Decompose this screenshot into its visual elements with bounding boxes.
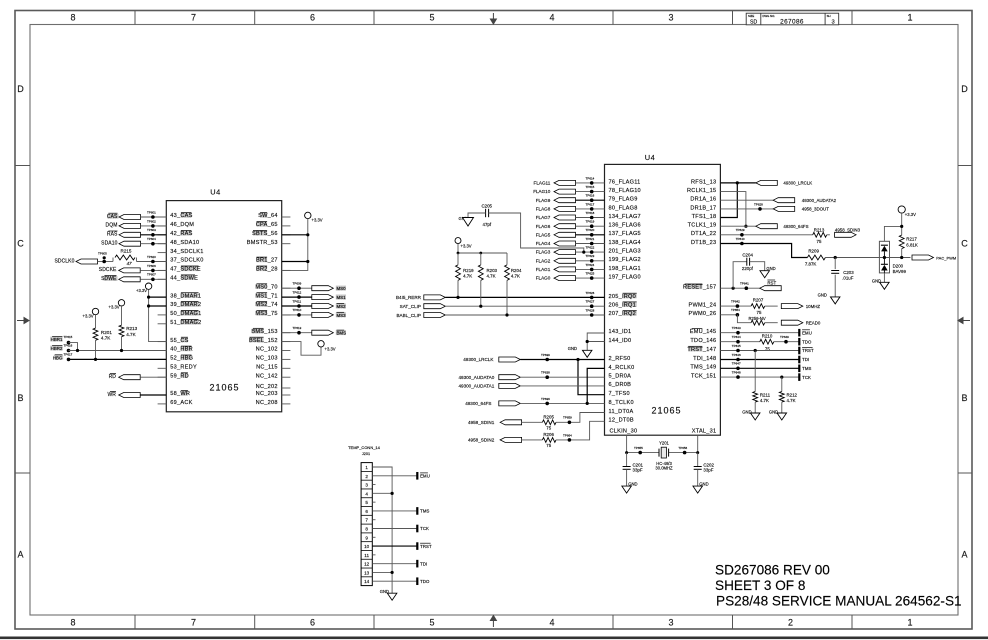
svg-text:BSEL_152: BSEL_152 [249, 338, 278, 344]
node RAS input flag [108, 230, 117, 232]
svg-text:13: 13 [364, 570, 370, 575]
node junction R217 top [900, 225, 903, 228]
svg-text:TP614: TP614 [586, 176, 595, 180]
test point TP620 [590, 233, 594, 237]
node MS3 output flag [282, 314, 313, 316]
svg-text:DQM: DQM [106, 223, 118, 229]
wire D200 top to +3.3V [884, 226, 901, 241]
svg-text:4958_SDIN1: 4958_SDIN1 [468, 420, 495, 425]
svg-text:FLAG2: FLAG2 [536, 258, 551, 263]
power +3.3V pull for DMAR [145, 283, 151, 289]
svg-text:GND: GND [568, 346, 577, 351]
node junction C203 [834, 256, 837, 259]
svg-text:4: 4 [549, 618, 554, 628]
node MS2 output flag [282, 305, 313, 307]
svg-text:RFS1_13: RFS1_13 [691, 179, 716, 185]
wire RAS [141, 234, 167, 236]
svg-text:EMU: EMU [802, 330, 812, 335]
svg-text:44_SDWE: 44_SDWE [170, 276, 198, 282]
svg-text:RCLK1_15: RCLK1_15 [687, 188, 716, 194]
node junction TRST pulldown [754, 349, 757, 352]
test point TP626 [590, 296, 594, 300]
svg-text:4.7K: 4.7K [126, 332, 136, 337]
svg-text:30.0MHZ: 30.0MHZ [655, 466, 673, 471]
svg-text:4.7K: 4.7K [463, 274, 472, 279]
wire FLAG2 [576, 260, 605, 262]
svg-text:7_TFS0: 7_TFS0 [609, 391, 630, 397]
node 49300_AUDATA2 flag [773, 198, 795, 203]
node BMS output flag [282, 332, 313, 334]
node junction HBG R201 [94, 358, 97, 361]
wire FLAG1 [576, 268, 605, 270]
wire J201 pin8 TCK [372, 528, 417, 530]
wire SDIN2 to R206 [522, 439, 543, 441]
wire IRQ2 [445, 314, 604, 316]
wire J201 pin1 to ground rail [372, 467, 392, 593]
test point TP655 [638, 451, 642, 455]
svg-text:220pf: 220pf [742, 266, 754, 271]
wire PWM0 jog [720, 314, 737, 316]
svg-text:R206: R206 [543, 432, 554, 437]
svg-text:R211: R211 [760, 392, 771, 397]
test point TP640 [740, 242, 744, 246]
svg-text:5_DR0A: 5_DR0A [609, 374, 632, 380]
svg-text:47pf: 47pf [483, 222, 492, 227]
test point TP654 [568, 438, 572, 442]
test point TP627 [590, 304, 594, 308]
test point TP616 [590, 198, 594, 202]
wire J201 pin2 EMU [372, 475, 417, 477]
wire TMS [720, 367, 799, 369]
node junction BR1 [306, 260, 309, 263]
ground D200 [883, 273, 885, 282]
svg-text:6: 6 [310, 618, 315, 628]
svg-text:TP649: TP649 [780, 335, 789, 339]
power +3.3V PAC_PWM [898, 206, 905, 213]
svg-text:12: 12 [364, 562, 370, 567]
wire +3.3V to DMAR1 DMAR2 CS [149, 289, 167, 341]
svg-text:207_IRQ2: 207_IRQ2 [609, 311, 637, 317]
node terminal TCK J201 [416, 525, 418, 533]
svg-text:D: D [17, 84, 24, 94]
test point TP645 [736, 349, 740, 353]
svg-text:47_SDCKE: 47_SDCKE [170, 267, 201, 273]
svg-text:TP640: TP640 [736, 237, 745, 241]
svg-text:75: 75 [817, 239, 822, 244]
svg-text:197_FLAG0: 197_FLAG0 [609, 275, 641, 281]
resistor R210 75 [760, 339, 774, 344]
node terminal TDI [798, 356, 800, 364]
op-amp U4 right block 21065 [605, 164, 721, 435]
svg-text:TP605: TP605 [98, 252, 107, 256]
node terminal EMU J201 [416, 472, 418, 480]
svg-text:TDI_148: TDI_148 [693, 356, 716, 362]
svg-text:TP613: TP613 [293, 326, 302, 330]
svg-text:FLAG0: FLAG0 [536, 276, 551, 281]
svg-text:33pF: 33pF [703, 468, 713, 473]
test point TP622 [590, 250, 594, 254]
resistor R213 4.7K [121, 306, 123, 325]
svg-text:MS2: MS2 [337, 304, 347, 309]
svg-text:PS28/48 SERVICE MANUAL 264562-: PS28/48 SERVICE MANUAL 264562-S1 [716, 594, 962, 609]
svg-text:BR2_28: BR2_28 [256, 267, 278, 273]
svg-text:TP616: TP616 [586, 194, 595, 198]
wire SDA10 [141, 243, 167, 245]
svg-text:144_ID0: 144_ID0 [609, 338, 632, 344]
node RST flag [760, 286, 782, 291]
svg-text:75: 75 [546, 426, 551, 431]
svg-text:TP607: TP607 [147, 273, 156, 277]
svg-text:PWM0_26: PWM0_26 [689, 311, 717, 317]
svg-text:4.7K: 4.7K [760, 398, 769, 403]
test point TP647 [736, 367, 740, 371]
svg-text:R209: R209 [808, 249, 819, 254]
svg-text:TP643: TP643 [732, 326, 741, 330]
wire TCK [720, 376, 799, 378]
svg-text:RD: RD [109, 374, 117, 380]
svg-text:SW_64: SW_64 [258, 213, 278, 219]
svg-text:R207: R207 [753, 298, 764, 303]
wire IRQ0 [445, 296, 604, 298]
svg-text:6_DR0B: 6_DR0B [609, 382, 632, 388]
node 10MHZ flag [781, 304, 803, 309]
node terminal TRST [798, 347, 800, 355]
resistor R212 4.7K [781, 377, 783, 391]
node WR input flag [110, 390, 116, 392]
resistor R206 75 [542, 438, 556, 443]
svg-text:GND: GND [766, 266, 775, 271]
svg-text:TP654: TP654 [731, 308, 740, 312]
node junction TCLK1 [744, 225, 747, 228]
wire WR [140, 394, 166, 396]
svg-text:R213: R213 [126, 326, 137, 331]
svg-text:5: 5 [429, 13, 434, 23]
svg-text:BMS: BMS [337, 331, 347, 336]
svg-text:TP625: TP625 [586, 272, 595, 276]
wire XTAL stub [697, 435, 699, 452]
svg-text:3: 3 [365, 483, 368, 488]
test point TP641 [745, 286, 749, 290]
svg-text:4: 4 [549, 13, 554, 23]
svg-text:CLKIN_30: CLKIN_30 [610, 428, 638, 434]
svg-text:TP636: TP636 [541, 397, 550, 401]
svg-text:DR1B_17: DR1B_17 [690, 205, 716, 211]
svg-text:7: 7 [191, 618, 196, 628]
svg-text:14: 14 [364, 579, 370, 584]
wire TDI [720, 359, 799, 361]
power +3.3V pull SBTS/BR [305, 212, 311, 218]
U4-right JTAG pin names [692, 328, 703, 330]
svg-text:51_DMAG2: 51_DMAG2 [170, 320, 201, 326]
node terminal TRST J201 [416, 542, 418, 550]
svg-text:D200: D200 [893, 264, 904, 269]
svg-text:HBR1: HBR1 [51, 337, 63, 342]
svg-text:+3.3V: +3.3V [461, 244, 472, 249]
svg-text:TP628: TP628 [586, 308, 595, 312]
svg-text:33pF: 33pF [633, 468, 643, 473]
ground C204 [750, 262, 765, 271]
svg-text:+3.3V: +3.3V [83, 313, 94, 318]
svg-text:46_DQM: 46_DQM [170, 222, 194, 228]
U4-left pin names right column [260, 213, 267, 218]
wire +3.3V to R217 [901, 213, 903, 235]
svg-text:TP648: TP648 [732, 371, 741, 375]
svg-text:MS0: MS0 [337, 286, 347, 291]
test point TP646 [736, 358, 740, 362]
svg-text:4958_SDIN3: 4958_SDIN3 [835, 227, 861, 232]
node junction TCK pulldown [780, 376, 783, 379]
svg-text:R204: R204 [511, 268, 522, 273]
svg-text:FLAG10: FLAG10 [533, 189, 551, 194]
svg-text:1: 1 [907, 13, 912, 23]
svg-text:TCLK1_19: TCLK1_19 [688, 223, 717, 229]
svg-text:TFS1_18: TFS1_18 [692, 214, 717, 220]
test point TP604 [151, 242, 155, 246]
svg-text:BMSTR_53: BMSTR_53 [247, 240, 278, 246]
svg-text:TRST_147: TRST_147 [687, 347, 716, 353]
wire CAS [141, 216, 167, 218]
svg-text:PAC_PWM: PAC_PWM [936, 255, 956, 260]
test point TP617 [590, 207, 594, 211]
svg-text:TP620: TP620 [147, 255, 156, 259]
svg-text:8: 8 [70, 13, 75, 23]
svg-text:206_IRQ1: 206_IRQ1 [609, 303, 637, 309]
wire TRST [720, 350, 799, 352]
test point TP624 [590, 268, 594, 272]
svg-text:198_FLAG1: 198_FLAG1 [609, 266, 641, 272]
wire AUDATA1 to DR0B [520, 385, 604, 387]
svg-text:C205: C205 [482, 203, 493, 208]
test point TP628 [590, 313, 594, 317]
wire SBTS [282, 234, 308, 236]
wire EMU [720, 332, 799, 334]
wire SDIN1 to DT0A [556, 413, 605, 423]
svg-text:TP615: TP615 [64, 335, 73, 339]
svg-text:GND: GND [818, 293, 827, 298]
resistor R205 75 [542, 420, 556, 425]
svg-text:49300_64FS: 49300_64FS [783, 224, 808, 229]
svg-text:TP644: TP644 [732, 335, 741, 339]
svg-text:NC_103: NC_103 [256, 356, 278, 362]
svg-text:201_FLAG3: 201_FLAG3 [609, 249, 641, 255]
wire crystal net [627, 452, 659, 454]
node junction RESET C204 [732, 287, 735, 290]
test point TP602 [151, 224, 155, 228]
svg-text:69_ACK: 69_ACK [170, 400, 192, 406]
svg-text:SDA10: SDA10 [101, 241, 117, 247]
svg-text:FLAG1: FLAG1 [536, 267, 551, 272]
svg-text:+3.3V: +3.3V [325, 347, 336, 352]
svg-text:+3.3V: +3.3V [136, 288, 147, 293]
svg-text:BR1_27: BR1_27 [256, 258, 278, 264]
svg-text:FLAG8: FLAG8 [536, 207, 551, 212]
test point TP614 [590, 181, 594, 185]
svg-text:75: 75 [546, 443, 551, 448]
test point TP620 [151, 260, 155, 264]
svg-text:3: 3 [668, 618, 673, 628]
svg-text:TCK_151: TCK_151 [691, 374, 716, 380]
svg-text:6: 6 [310, 13, 315, 23]
test point TP601 [151, 215, 155, 219]
wire HBR1 jog [69, 343, 78, 351]
svg-text:3: 3 [668, 13, 673, 23]
svg-text:SDCKE: SDCKE [99, 267, 117, 273]
diode D200 BAV99 [879, 241, 889, 273]
node HBG label [54, 355, 63, 360]
svg-text:R219: R219 [463, 268, 474, 273]
wire J201 pin4 [372, 492, 392, 494]
node junction LRCLK TFS0 [576, 358, 579, 361]
wire RFS1 to 49300_LRCLK flag [720, 182, 755, 184]
wire FLAG8 [576, 208, 605, 210]
svg-text:U4: U4 [210, 188, 220, 197]
capacitor C204 220pf [733, 262, 747, 289]
svg-text:TCK: TCK [420, 526, 429, 531]
svg-text:143_ID1: 143_ID1 [609, 329, 632, 335]
wire DMAR1 [149, 296, 167, 298]
svg-text:4.7K: 4.7K [511, 274, 520, 279]
wire SDIN2 to DT0B [556, 421, 605, 440]
op-amp U4 left block 21065 [166, 201, 281, 412]
svg-text:138_FLAG4: 138_FLAG4 [609, 240, 641, 246]
svg-text:50_DMAG1: 50_DMAG1 [170, 311, 201, 317]
wire R209 to PAC_PWM net [825, 257, 910, 259]
svg-text:TP624: TP624 [586, 263, 595, 267]
wire TDO [720, 341, 760, 343]
svg-text:8: 8 [70, 618, 75, 628]
test point TP629 [740, 233, 744, 237]
svg-text:1: 1 [907, 618, 912, 628]
svg-text:R201: R201 [101, 330, 112, 335]
svg-text:TP612: TP612 [293, 290, 302, 294]
svg-text:9: 9 [365, 535, 368, 540]
svg-text:TMS_149: TMS_149 [690, 365, 716, 371]
svg-text:FLAG7: FLAG7 [536, 215, 551, 220]
svg-text:A: A [961, 550, 967, 560]
U4-right RESET pin name [685, 284, 703, 289]
resistor R215 47 [112, 258, 114, 262]
resistor R203 4.7K [480, 253, 482, 265]
wire AUDATA0 to DR0A [520, 376, 604, 378]
test point TP643 [736, 331, 740, 335]
svg-text:C: C [961, 239, 968, 249]
svg-text:6: 6 [365, 509, 368, 514]
wire LRCLK to RFS0 [520, 359, 604, 361]
test point TP606 [151, 269, 155, 273]
node junction RFS1 TFS1 [736, 181, 739, 184]
test point TP605 [102, 260, 106, 264]
svg-text:TP656: TP656 [678, 446, 687, 450]
svg-text:6.81K: 6.81K [906, 242, 918, 247]
svg-text:TDI: TDI [802, 357, 809, 362]
svg-text:49300_LRCLK: 49300_LRCLK [463, 357, 494, 362]
node terminal TMS J201 [416, 507, 418, 515]
svg-text:4.7K: 4.7K [487, 274, 496, 279]
power +3.3V pull R201 [92, 308, 98, 314]
wire R259 to READ0 flag [765, 322, 778, 324]
svg-text:49300_AUDATA1: 49300_AUDATA1 [458, 384, 494, 389]
test point TP649 [784, 340, 788, 344]
svg-text:R259-NV: R259-NV [749, 316, 766, 321]
node junction SBTS [306, 233, 309, 236]
svg-text:GND: GND [769, 410, 778, 415]
svg-text:49300_AUDATA0: 49300_AUDATA0 [458, 375, 494, 380]
svg-text:TP619: TP619 [586, 220, 595, 224]
node HBR1 label [50, 337, 62, 342]
svg-text:10: 10 [364, 544, 370, 549]
svg-text:TRST: TRST [420, 544, 432, 549]
svg-text:READ0: READ0 [806, 321, 821, 326]
svg-text:FLAG9: FLAG9 [536, 198, 551, 203]
wire FLAG4 [576, 243, 605, 245]
svg-text:TP617: TP617 [64, 352, 73, 356]
svg-text:U4: U4 [645, 153, 655, 162]
wire IRQ1 [445, 305, 604, 307]
svg-text:55_CS: 55_CS [170, 338, 188, 344]
capacitor C202 33pF [697, 453, 699, 467]
svg-text:BAV99: BAV99 [893, 269, 907, 274]
svg-text:2_RFS0: 2_RFS0 [609, 356, 631, 362]
svg-text:NC_202: NC_202 [256, 384, 278, 390]
wire J201 pin10 TRST [372, 545, 417, 547]
node terminal TDI J201 [416, 560, 418, 568]
svg-text:HBG: HBG [53, 355, 63, 360]
node MS1 output flag [282, 296, 313, 298]
wire SDWE [140, 278, 166, 280]
capacitor C201 33pF [626, 453, 628, 467]
svg-text:MS1: MS1 [337, 295, 347, 300]
wire TCLK1 to 49300_64FS flag [720, 225, 755, 227]
test point TP644 [736, 340, 740, 344]
test point HBG [67, 358, 71, 362]
test point TP607 [151, 278, 155, 282]
svg-text:R205: R205 [543, 414, 554, 419]
svg-text:NC_142: NC_142 [256, 373, 278, 379]
svg-text:SIZE: SIZE [748, 14, 754, 18]
svg-text:TP645: TP645 [732, 344, 741, 348]
svg-text:BMS_153: BMS_153 [251, 329, 277, 335]
svg-text:B: B [17, 393, 23, 403]
resistor R213 75 [813, 232, 827, 237]
wire J201 pin14 TDO [372, 580, 417, 582]
wire +3.3V to SBTS BR1 BR2 [282, 219, 308, 271]
svg-text:PWM1_24: PWM1_24 [689, 303, 717, 309]
wire FLAG11 [576, 182, 605, 184]
wire ID1 ID0 to ground [587, 333, 604, 350]
svg-text:1: 1 [365, 465, 368, 470]
wire SDCLK0 right segment [137, 261, 167, 263]
svg-text:Y201: Y201 [659, 441, 669, 446]
wire FLAG6 [576, 225, 605, 227]
wire CLKIN stub [626, 435, 628, 452]
svg-text:40_HBR: 40_HBR [170, 347, 193, 353]
svg-text:TP655: TP655 [634, 446, 643, 450]
node 49300_LRCLK flag right [756, 180, 778, 185]
node HBR2 label [50, 346, 62, 351]
svg-text:59_RD: 59_RD [170, 373, 189, 379]
svg-text:136_FLAG6: 136_FLAG6 [609, 223, 641, 229]
svg-text:MS1_71: MS1_71 [255, 293, 277, 299]
node junction FLAG3 C205 [582, 251, 585, 254]
svg-text:TP618: TP618 [586, 211, 595, 215]
svg-text:TMS: TMS [802, 366, 811, 371]
wire +3.3V bus to pullups [458, 244, 507, 253]
test point TP642 [736, 304, 740, 308]
svg-text:TRST: TRST [802, 348, 814, 353]
svg-text:10MHZ: 10MHZ [806, 304, 821, 309]
svg-text:SDWE: SDWE [101, 276, 117, 282]
svg-text:TP629: TP629 [736, 228, 745, 232]
